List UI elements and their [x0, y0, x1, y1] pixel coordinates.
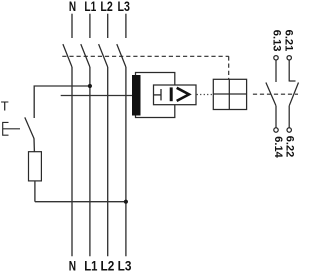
wire resistor to bottom: [34, 181, 36, 202]
wire L2 upper: [107, 14, 109, 38]
aux terminal circle 6.13: [274, 56, 278, 60]
latch mechanism box (square with cross): [213, 79, 246, 109]
test button plunger: [3, 128, 20, 130]
svg-text:L2: L2: [100, 0, 112, 14]
relay symbol > (greater-than): [177, 88, 189, 101]
aux terminal circle 6.22: [287, 128, 291, 132]
svg-text:L3: L3: [118, 0, 130, 14]
dotted link relay to latch: [197, 94, 213, 96]
node on L1: [88, 84, 92, 88]
relay symbol I (bold bar): [170, 87, 173, 101]
svg-text:L1: L1: [84, 258, 97, 273]
switch contact blade pole L1: [81, 44, 90, 67]
wire N lower: [71, 67, 73, 256]
trip relay box U1: [136, 73, 175, 118]
wire test branch lower: [35, 201, 126, 203]
trip relay element box: [154, 85, 197, 105]
wire to current transformer: [61, 95, 133, 97]
relay symbol input tick: [160, 89, 162, 100]
svg-text:L1: L1: [84, 0, 96, 14]
svg-text:N: N: [69, 258, 76, 273]
aux contact NC 21-22: [289, 60, 298, 127]
switch contact blade pole L3: [117, 44, 126, 67]
current transformer core (black bar): [132, 75, 141, 116]
svg-text:6.21: 6.21: [282, 30, 294, 52]
relay symbol input line: [154, 94, 162, 96]
test button actuator: [3, 122, 9, 135]
aux terminal circle 6.21: [287, 56, 291, 60]
wire L2 lower: [107, 67, 109, 256]
svg-text:N: N: [69, 0, 76, 14]
switch contact blade pole L2: [99, 44, 108, 67]
wire L1 lower: [89, 67, 91, 256]
svg-text:6.13: 6.13: [270, 30, 282, 52]
wire blade to resistor: [33, 138, 35, 151]
svg-text:6.22: 6.22: [284, 136, 296, 157]
svg-text:6.14: 6.14: [272, 136, 284, 158]
svg-text:L3: L3: [118, 258, 132, 273]
resistor (test): [29, 152, 42, 181]
svg-text:L2: L2: [101, 258, 115, 273]
wire test branch upper: [34, 86, 90, 118]
node on L3: [124, 200, 128, 204]
svg-text:T: T: [1, 98, 9, 113]
aux terminal circle 6.14: [274, 128, 278, 132]
wire L1 upper: [89, 14, 91, 38]
dashed link latch to aux contacts: [253, 93, 298, 95]
switch contact blade pole N: [63, 44, 72, 67]
test button contact blade: [25, 117, 34, 138]
aux contact NO 13-14: [266, 60, 276, 127]
wire N upper: [71, 14, 73, 38]
wire L3 lower: [125, 67, 127, 256]
wire L3 upper: [125, 14, 127, 38]
mechanical coupling link (dashed): [62, 56, 228, 79]
